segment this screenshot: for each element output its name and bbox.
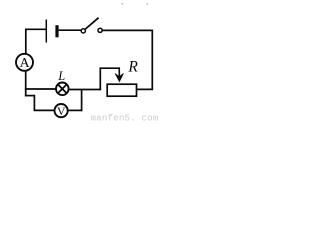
svg-text:V: V bbox=[57, 104, 66, 118]
wire: rheostat right terminal to right vertical bbox=[136, 88, 153, 90]
wire: upper horizontal from step corner to slider arrow bbox=[100, 67, 119, 69]
wire: switch to top-right corner bbox=[102, 29, 152, 31]
switch S1: open lever blade bbox=[85, 18, 98, 29]
wire: jog top horizontal to voltmeter branch bbox=[25, 95, 35, 97]
wire: jog vertical down to voltmeter level bbox=[33, 95, 35, 111]
rheostat R: resistance box body bbox=[107, 84, 136, 96]
wire: lamp branch horizontal bbox=[25, 88, 56, 90]
speck dot 2 bbox=[147, 3, 149, 4]
switch S1: left pivot terminal circle bbox=[81, 29, 85, 33]
wire: right vertical down to rheostat right terminal bbox=[151, 30, 153, 90]
wire: left vertical from top corner down to ammeter top bbox=[25, 29, 27, 54]
speck dot 1 bbox=[122, 3, 124, 5]
rheostat R: slider arrow shaft bbox=[118, 67, 120, 77]
wire: step vertical from lamp line up to slider line bbox=[99, 67, 101, 90]
wire: voltmeter right lead bbox=[68, 109, 83, 111]
lamp L: cross X inside bulb bbox=[58, 84, 67, 93]
wire: top-left horizontal from corner to battery positive plate bbox=[25, 28, 46, 30]
ammeter A1: body circle bbox=[16, 54, 33, 71]
lamp L: bulb circle bbox=[56, 83, 69, 96]
battery cell B1: short thick negative plate bbox=[55, 25, 58, 37]
svg-text:L: L bbox=[57, 69, 65, 83]
wire: voltmeter left lead bbox=[34, 109, 55, 111]
wire: parallel-connection vertical up to lamp line bbox=[81, 90, 83, 112]
wire: lamp right lead to step corner bbox=[69, 89, 101, 91]
wire: battery to switch left terminal bbox=[59, 29, 81, 31]
rheostat R: slider arrowhead bbox=[115, 74, 123, 82]
svg-text:manfen5. com: manfen5. com bbox=[91, 112, 159, 123]
wire: ammeter bottom to lower junction column bbox=[25, 71, 27, 97]
battery cell B1: long thin positive plate bbox=[45, 20, 47, 43]
voltmeter V1: body circle bbox=[55, 104, 68, 117]
svg-text:R: R bbox=[127, 59, 138, 76]
svg-text:A: A bbox=[20, 56, 31, 71]
switch S1: right terminal circle bbox=[98, 28, 102, 32]
